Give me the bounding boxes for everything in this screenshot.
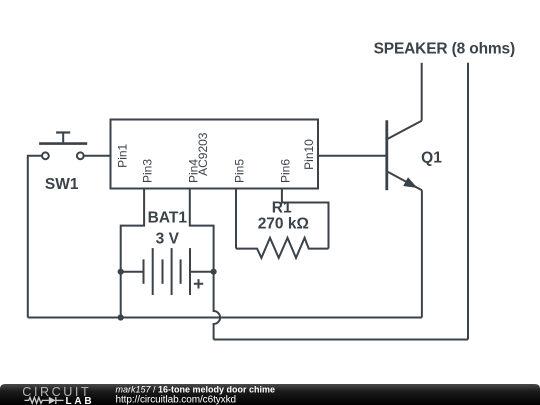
junction dot at battery negative: [118, 269, 124, 275]
wire: Pin3 to battery negative terminal: [121, 189, 144, 272]
wire: Pin5 down to R1: [235, 189, 237, 249]
svg-text:3 V: 3 V: [156, 230, 180, 247]
CircuitLab logo resistor + diode symbol: [25, 397, 64, 404]
wire: R1 right terminal up and over to Pin6: [282, 189, 329, 249]
switch SW1: [39, 133, 87, 160]
wire: SW1 left terminal down to bottom rail: [28, 156, 42, 318]
svg-text:Q1: Q1: [421, 149, 442, 166]
svg-text:SW1: SW1: [45, 176, 79, 193]
transistor Q1: [387, 120, 422, 190]
svg-text:Pin3: Pin3: [141, 159, 155, 183]
svg-text:Pin5: Pin5: [233, 159, 247, 183]
wire: battery positive down with hop over bottom rail: [214, 272, 221, 340]
plus sign of BAT1: [194, 279, 203, 288]
junction dot at battery positive: [211, 269, 217, 275]
wire: lower return rail: [214, 339, 468, 341]
resistor R1: [236, 238, 329, 258]
wire: Pin4 to battery positive terminal: [190, 189, 214, 272]
svg-text:SPEAKER (8 ohms): SPEAKER (8 ohms): [374, 41, 515, 58]
svg-text:BAT1: BAT1: [148, 210, 188, 227]
svg-text:R1: R1: [272, 200, 292, 217]
battery BAT1: [121, 248, 214, 295]
wire: SW1 right terminal to IC Pin1: [84, 155, 110, 157]
svg-text:LAB: LAB: [66, 396, 95, 405]
svg-text:Pin1: Pin1: [115, 143, 129, 167]
wire: Pin10 to Q1 base: [318, 155, 386, 157]
wire: speaker left lead to Q1 collector: [421, 63, 423, 121]
svg-text:Pin10: Pin10: [302, 139, 316, 170]
svg-text:270 kΩ: 270 kΩ: [258, 215, 309, 232]
svg-text:http://circuitlab.com/c6tyxkd: http://circuitlab.com/c6tyxkd: [116, 394, 237, 405]
junction dot on bottom rail: [118, 314, 124, 320]
wire: battery negative down to bottom rail: [120, 272, 122, 318]
wire: Q1 emitter down to bottom rail: [421, 190, 423, 317]
svg-text:mark157 / 16-tone melody door: mark157 / 16-tone melody door chime: [116, 384, 276, 394]
wire: speaker right lead down right side: [467, 63, 469, 340]
svg-text:AC9203: AC9203: [196, 132, 210, 176]
wire: bottom rail: [28, 317, 422, 319]
IC U1 (AC9203): [111, 120, 319, 189]
svg-text:Pin6: Pin6: [278, 159, 292, 183]
